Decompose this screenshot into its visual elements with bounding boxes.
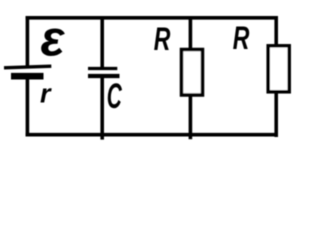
resistor R1 body [182,50,203,96]
capacitor C : bottom plate [88,74,120,78]
wire left branch lower lead (from battery) [26,79,30,137]
wire right branch upper lead (to R2) [274,16,278,46]
svg-text:r: r [40,79,52,109]
svg-text:C: C [107,77,123,116]
wire top rail [26,16,278,20]
wire left branch upper lead (to battery) [26,16,30,68]
svg-text:R: R [233,20,250,56]
wire bottom rail [26,133,278,137]
capacitor C : top plate [88,67,117,70]
battery cell E,r : short thick negative plate [11,73,44,80]
wire capacitor branch upper lead [100,18,104,69]
svg-text:R: R [154,21,171,57]
wire right branch lower lead (from R2) [274,92,278,137]
battery cell E,r : long thin positive plate [4,66,51,68]
resistor R2 body [268,46,289,92]
wire resistor R1 branch upper lead [189,18,193,50]
wire resistor R1 branch lower lead (overshoots bottom rail) [189,95,193,139]
wire capacitor branch lower lead (overshoots bottom rail) [100,76,104,140]
svg-text:ε: ε [41,11,66,67]
